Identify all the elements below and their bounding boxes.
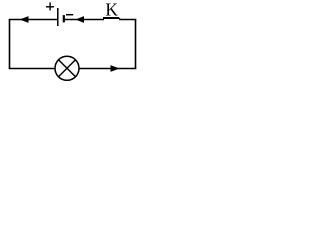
current arrow on top-left wire <box>20 16 29 23</box>
svg-text:K: K <box>105 0 118 19</box>
current arrow on bottom wire <box>111 65 120 72</box>
wire left vertical <box>9 20 11 69</box>
lamp cross diagonal 1 <box>59 60 76 77</box>
switch right contact diagonal <box>119 18 120 20</box>
wire bottom left segment <box>9 68 55 70</box>
lamp cross diagonal 2 <box>59 60 76 77</box>
minus label <box>66 14 73 16</box>
battery long plate (positive) <box>57 8 59 26</box>
battery short plate (negative) <box>63 15 65 22</box>
current arrow on top-right wire <box>76 16 85 23</box>
wire top middle segment <box>65 19 104 21</box>
wire top left segment <box>9 19 58 21</box>
plus label <box>46 2 54 10</box>
wire bottom right segment <box>79 68 136 70</box>
lamp L circle <box>55 56 79 80</box>
wire right vertical <box>135 20 137 69</box>
wire top right segment <box>119 19 136 21</box>
switch K blade <box>103 17 119 19</box>
